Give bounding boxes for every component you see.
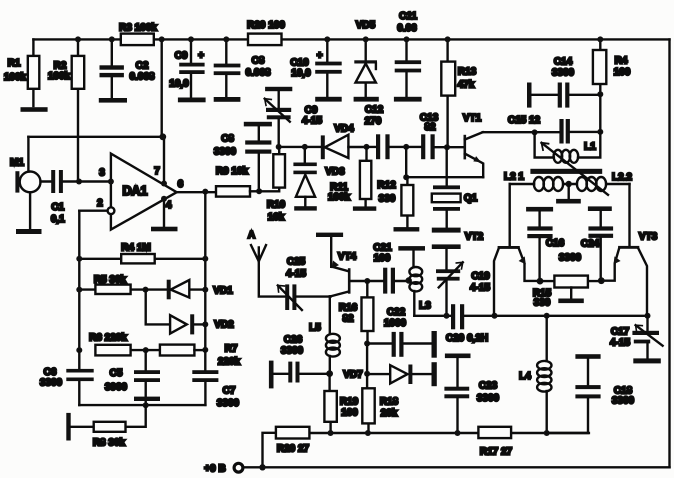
svg-text:C16: C16 (546, 238, 565, 249)
svg-text:VD5: VD5 (356, 20, 376, 31)
node (C2 top rail) (109, 36, 115, 42)
svg-text:10k: 10k (268, 212, 285, 223)
node (R5 right / VD1) (143, 287, 149, 293)
wire inverting input column (78, 211, 80, 350)
wire modulator line y147 (279, 146, 321, 148)
capacitor C16 3300 (526, 207, 565, 281)
resistor R15 330 (533, 276, 601, 309)
resistor R8 30k (66, 405, 145, 448)
svg-text:C14: C14 (554, 57, 573, 68)
node (C10 top rail) (324, 36, 330, 42)
diode VD5 zener (354, 20, 377, 96)
wire pin6 output (177, 191, 216, 193)
resistor R4 100 (593, 39, 631, 94)
svg-text:+9 В: +9 В (204, 464, 225, 475)
op-amp DA1 (97, 154, 183, 230)
node (L2 center tap) (566, 181, 572, 187)
node (R6 left) (76, 347, 82, 353)
svg-text:0,1: 0,1 (51, 214, 65, 225)
node (C1 / R2 bottom) (76, 179, 82, 185)
ground (M1) (16, 229, 42, 234)
resistor R1 (4, 39, 39, 106)
svg-text:220k: 220k (218, 357, 241, 368)
svg-text:L2.2: L2.2 (612, 172, 632, 183)
node (C12 / C13 / R12) (403, 144, 409, 150)
svg-text:VT4: VT4 (338, 252, 357, 263)
svg-text:C7: C7 (223, 386, 236, 397)
node (C5 bottom / R8) (143, 402, 149, 408)
wire right border (668, 39, 670, 467)
svg-text:C8: C8 (221, 134, 234, 145)
node (R4 top rail) (597, 36, 603, 42)
crystal Q1 (432, 147, 478, 227)
svg-text:3300: 3300 (40, 378, 63, 389)
resistor R4 1M (feedback) (79, 243, 205, 264)
wire bottom of RC ladder (79, 404, 205, 406)
wire +9V bottom rail (244, 466, 670, 468)
svg-text:R3 100k: R3 100k (119, 23, 157, 34)
svg-text:C11: C11 (399, 11, 417, 22)
svg-text:R5 30k: R5 30k (94, 275, 127, 286)
svg-text:10,0: 10,0 (291, 68, 311, 79)
node (R4 bottom / C14) (597, 91, 603, 97)
svg-text:R19: R19 (340, 397, 359, 408)
node (VD3 top) (302, 144, 308, 150)
ground (C11) (394, 97, 422, 102)
svg-text:L2 1: L2 1 (504, 172, 524, 183)
node (M1 wire / pin7 column) (159, 133, 166, 140)
capacitor C11 0.06 (395, 11, 421, 96)
node (R4 1M left) (76, 256, 82, 262)
svg-text:Q1: Q1 (464, 193, 478, 204)
svg-text:3300: 3300 (217, 398, 240, 409)
svg-text:82: 82 (342, 314, 354, 325)
ground (C17) (633, 358, 661, 363)
svg-text:C21: C21 (373, 243, 392, 254)
capacitor C9 electrolytic 10,0 (169, 39, 204, 97)
svg-text:R20 27: R20 27 (277, 444, 310, 455)
svg-text:6: 6 (178, 179, 184, 190)
node (L5 / C26 / R19) (326, 370, 333, 377)
diode VD4 (321, 124, 367, 160)
svg-text:R20 100: R20 100 (247, 20, 285, 31)
ground (Q1) (432, 228, 461, 233)
capacitor C1 0,1 (41, 170, 80, 225)
svg-text:VD4: VD4 (334, 124, 354, 135)
svg-text:47k: 47k (458, 80, 475, 91)
node (C24 / R15 right / VT3 emitter) (598, 277, 605, 284)
svg-text:R18: R18 (380, 397, 399, 408)
node (VD5 top rail) (363, 36, 369, 42)
node (C21 / L3 tap) (406, 277, 412, 283)
resistor R10 10k (259, 147, 286, 223)
node (C11 top rail) (404, 36, 410, 42)
capacitor C5 3900 (105, 350, 160, 405)
svg-text:330: 330 (379, 194, 396, 205)
svg-text:+: + (317, 51, 323, 62)
svg-text:R8 30k: R8 30k (93, 438, 126, 449)
svg-text:C23: C23 (479, 381, 498, 392)
svg-text:L1: L1 (584, 142, 596, 153)
svg-text:7: 7 (154, 166, 160, 177)
node (R9 / R10 / C8 3300) (256, 188, 262, 194)
supply bar (VT4 collector) (316, 233, 343, 237)
svg-text:3300: 3300 (477, 393, 500, 404)
inductor L2.1 (504, 172, 563, 192)
resistor R19 100 (324, 374, 358, 433)
resistor R20 27 (bottom) (263, 427, 310, 468)
node (VD7 / R18 top) (364, 371, 370, 377)
wire VT1 collector to tank (483, 131, 560, 133)
capacitor C9 4-15 trimmer (265, 87, 323, 147)
node (L4 bottom) (544, 430, 550, 436)
node (VT4 base / R16) (364, 278, 370, 284)
svg-text:C12: C12 (365, 105, 384, 116)
ground (C10) (315, 97, 342, 102)
diode VD1 (146, 280, 234, 300)
node (R18 bottom) (365, 430, 371, 436)
svg-text:10,0: 10,0 (169, 79, 189, 90)
svg-text:R12: R12 (377, 180, 396, 191)
wire output bus y316 (414, 315, 647, 317)
svg-text:A: A (248, 230, 255, 241)
resistor R2 (48, 39, 84, 181)
wire +9V top rail (33, 38, 669, 40)
svg-text:R1: R1 (8, 58, 21, 69)
svg-text:C8: C8 (252, 56, 265, 67)
svg-text:R4 1M: R4 1M (121, 243, 150, 254)
svg-text:C6: C6 (44, 367, 57, 378)
wire pin7 supply column (162, 39, 164, 183)
svg-text:4-15: 4-15 (302, 116, 322, 127)
transistor VT3 (601, 184, 657, 316)
ground (C8 0.068) (214, 97, 241, 102)
svg-text:3300: 3300 (214, 147, 237, 158)
resistor R7 220k (146, 344, 241, 368)
resistor R9 10k (216, 166, 259, 197)
node (R6 right / C5) (143, 347, 149, 353)
node (R16 / C22) (364, 341, 370, 347)
capacitor C20 6,2 (446, 304, 488, 344)
svg-text:0.068: 0.068 (129, 72, 154, 83)
svg-text:1000: 1000 (384, 318, 407, 329)
svg-text:3300: 3300 (612, 396, 635, 407)
capacitor C12 270 (365, 105, 407, 160)
node (R19 bottom) (328, 430, 334, 436)
capacitor C23 3300 (444, 354, 499, 434)
ground (C9) (178, 98, 206, 103)
svg-text:VD3: VD3 (325, 167, 345, 178)
svg-text:R16: R16 (339, 303, 358, 314)
node (R5 left) (76, 287, 82, 293)
capacitor C2 (100, 39, 155, 97)
node (R13 / VT1 base / Q1) (444, 144, 450, 150)
node (C9 trimmer / R10 top) (276, 144, 282, 150)
svg-text:VD2: VD2 (214, 320, 234, 331)
tuning arrow (L1/L2) (542, 143, 609, 195)
svg-text:100: 100 (341, 408, 358, 419)
resistor R18 20k (362, 374, 398, 433)
svg-text:4-15: 4-15 (286, 269, 306, 280)
node (C15 left / L1) (532, 129, 538, 135)
resistor R12 330 (377, 147, 413, 227)
svg-text:C26: C26 (284, 335, 303, 346)
capacitor C15 12 (508, 115, 600, 144)
ground (R15) (558, 299, 584, 304)
resistor R3 (119, 23, 157, 46)
node (VT3 collector / C17 on bus) (645, 313, 651, 319)
node (R12 top / emitter wire) (403, 174, 409, 180)
capacitor C21 100 (367, 243, 408, 294)
ground (VD3) (294, 206, 317, 210)
node (VD1 right) (202, 287, 208, 293)
node (rail to DA1 pin7) (159, 36, 165, 42)
transistor VT4 (331, 237, 368, 297)
resistor R16 82 (339, 281, 374, 344)
svg-text:M1: M1 (10, 158, 24, 169)
svg-text:330: 330 (534, 298, 551, 309)
node (C23 bottom / R17) (455, 430, 461, 436)
node (L4 top on bus) (544, 313, 550, 319)
supply bar (L3 top) (398, 246, 425, 251)
svg-text:3: 3 (99, 168, 105, 179)
capacitor C19 4-15 trimmer (432, 244, 491, 315)
transistor VT1 (463, 113, 483, 177)
svg-text:L5: L5 (309, 323, 321, 334)
svg-text:C19: C19 (471, 271, 490, 282)
wire M1 supply (28, 136, 161, 138)
capacitor C8 0.068 (214, 39, 271, 96)
svg-text:DA1: DA1 (122, 184, 147, 198)
svg-text:R13: R13 (458, 67, 477, 78)
svg-text:3300: 3300 (281, 346, 304, 357)
terminal +9V (204, 463, 243, 474)
svg-text:100k: 100k (328, 192, 351, 203)
svg-text:VT2: VT2 (465, 232, 484, 243)
inductor L4 (519, 316, 551, 433)
ground (VD5) (354, 97, 379, 102)
diode VD7 (343, 344, 437, 387)
capacitor C13 82 (406, 113, 463, 160)
inductor L5 (309, 296, 340, 373)
svg-text:R7: R7 (225, 344, 238, 355)
inductor L2.2 (563, 172, 632, 191)
svg-text:C20 6,2Н: C20 6,2Н (446, 333, 488, 344)
svg-text:3300: 3300 (559, 253, 582, 264)
diode VD3 varicap (293, 147, 345, 206)
ground (C2) (99, 98, 127, 103)
svg-text:R2: R2 (54, 61, 67, 72)
svg-text:0.068: 0.068 (245, 68, 270, 79)
microphone M1 (10, 137, 40, 228)
svg-text:R9 10k: R9 10k (216, 166, 249, 177)
capacitor C22 1000 (367, 307, 437, 358)
capacitor C6 3300 (40, 350, 94, 405)
wire C1 to pin3 (79, 180, 111, 182)
antenna A (248, 230, 285, 297)
svg-text:R4: R4 (615, 56, 628, 67)
svg-text:C5: C5 (110, 368, 123, 379)
resistor R5 30k (79, 275, 145, 295)
node (C9 top rail) (188, 36, 194, 42)
svg-text:R17 27: R17 27 (480, 447, 513, 458)
svg-text:82: 82 (424, 122, 436, 133)
svg-text:0.06: 0.06 (397, 23, 417, 34)
svg-text:2: 2 (97, 198, 103, 209)
svg-text:20k: 20k (381, 408, 398, 419)
inductor L3 (409, 251, 431, 316)
svg-text:270: 270 (365, 116, 382, 127)
node (VD2 right) (202, 321, 208, 327)
svg-text:4-15: 4-15 (610, 338, 630, 349)
capacitor C18 3300 (547, 354, 635, 433)
svg-text:L4: L4 (519, 371, 531, 382)
node (C16 / R15 left / VT2 emitter) (537, 278, 544, 285)
svg-text:3900: 3900 (105, 382, 128, 393)
svg-text:C2: C2 (136, 61, 149, 72)
pin 4 ground (151, 196, 178, 232)
svg-text:VT1: VT1 (463, 113, 482, 124)
capacitor C17 4-15 trimmer (610, 316, 663, 358)
node (R7 right) (202, 347, 208, 353)
ground (R11) (353, 206, 376, 210)
node (C15 right / R4 column) (597, 129, 603, 135)
svg-text:100: 100 (374, 253, 391, 264)
inductor L1 (535, 132, 601, 163)
svg-text:3300: 3300 (552, 68, 575, 79)
svg-text:R10: R10 (267, 200, 286, 211)
resistor R20 100 (top) (247, 20, 285, 45)
node (pin7 on edge) (161, 181, 167, 187)
capacitor C7 3300 (192, 350, 239, 409)
node (bottom rail / R20) (259, 464, 265, 470)
svg-text:4: 4 (166, 200, 172, 211)
svg-text:100k: 100k (4, 72, 27, 83)
svg-text:100: 100 (614, 67, 631, 78)
capacitor C14 3300 (527, 57, 600, 108)
svg-text:100k: 100k (48, 71, 71, 82)
svg-text:C24: C24 (581, 239, 600, 250)
node (R2 top rail) (75, 36, 81, 42)
ground (R12) (394, 227, 420, 231)
capacitor C8 3300 (214, 122, 272, 192)
node (output column top) (202, 189, 208, 195)
ground (L2 tap) (556, 184, 581, 204)
capacitor C26 3300 (269, 335, 330, 389)
node (C8 top rail) (223, 36, 229, 42)
capacitor C25 4-15 trimmer (278, 257, 331, 311)
resistor R11 100k (328, 147, 371, 206)
svg-text:C17: C17 (611, 327, 630, 338)
node (C19 bottom) (444, 313, 450, 319)
svg-text:L3: L3 (419, 301, 431, 312)
wire bottom bus (R19/R18/C23) (309, 432, 589, 434)
node (R4 1M right) (202, 256, 208, 262)
svg-text:C10: C10 (290, 58, 309, 69)
wire output column (204, 192, 206, 350)
pin 2 circle (79, 207, 114, 214)
ground (R1) (21, 107, 48, 112)
svg-text:C15 12: C15 12 (508, 115, 541, 126)
resistor R13 47k (441, 39, 476, 147)
wire R4 node column (599, 94, 601, 132)
svg-text:VT3: VT3 (639, 232, 658, 243)
core bar L1/L2 (530, 169, 602, 174)
svg-text:C22: C22 (387, 307, 406, 318)
svg-text:VD1: VD1 (213, 286, 233, 297)
capacitor C10 electrolytic (290, 39, 341, 96)
resistor R17 27 (478, 427, 512, 458)
node (VT2 collector on bus) (492, 313, 498, 319)
svg-text:C9: C9 (305, 105, 318, 116)
capacitor C24 (559, 206, 613, 280)
svg-text:+: + (198, 51, 204, 62)
wire VT1 emitter to R12 (406, 176, 483, 178)
resistor R6 220k (89, 333, 146, 356)
svg-text:C25: C25 (287, 257, 306, 268)
node (R13 top rail) (445, 36, 451, 42)
diode VD2 (146, 290, 234, 335)
svg-text:VD7: VD7 (343, 370, 363, 381)
transistor VT2 (465, 184, 540, 316)
node (VD4 / C12 / R11) (364, 144, 370, 150)
svg-text:R6 220k: R6 220k (89, 333, 127, 344)
node (pin3) (108, 179, 114, 185)
svg-text:C9: C9 (175, 51, 188, 62)
svg-text:C1: C1 (51, 202, 64, 213)
svg-text:4-15: 4-15 (470, 283, 490, 294)
